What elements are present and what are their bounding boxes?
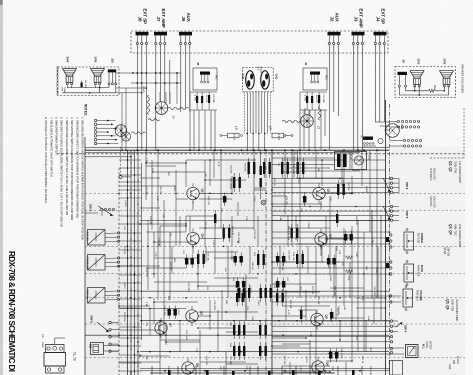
R cluster left mid xyxy=(223,228,225,238)
wire net 2nd stage left xyxy=(185,216,187,232)
potentiometer RV8 volume xyxy=(403,289,413,307)
jack J7 pin stubs xyxy=(155,35,157,42)
dashed rail y193 xyxy=(85,192,465,194)
jack J7 body xyxy=(154,32,167,36)
res stack center pair y288 xyxy=(238,288,240,298)
right dashed box edge xyxy=(463,108,465,158)
dashed rail y246 xyxy=(85,245,465,247)
left enclosure wiring bus xyxy=(66,86,68,88)
microphone input block J1 xyxy=(303,68,327,90)
ecap pair right of center xyxy=(276,256,279,263)
chassis dashed line y153.5 xyxy=(57,153,465,155)
ecap stack left of divider xyxy=(236,281,239,288)
driver components right xyxy=(300,310,302,319)
jack J4 pin stubs xyxy=(374,35,376,42)
head selector contact strip xyxy=(94,119,97,122)
main horizontal bus y150 xyxy=(85,149,389,151)
solid rail y291 xyxy=(140,290,389,292)
speaker enclosure (right) dashed box xyxy=(395,67,456,98)
wire net upper right ch xyxy=(282,159,344,161)
jack J4 body xyxy=(374,32,387,36)
shielded oscillator box T3 xyxy=(335,152,367,170)
mechanism switch PRESS SW xyxy=(88,255,106,271)
transistor Q7 xyxy=(155,322,167,334)
miscellaneous interconnect wires xyxy=(145,150,147,200)
R cluster right ch 2nd stage xyxy=(296,254,298,264)
bottom edge component stubs xyxy=(151,366,153,375)
record-playback head CH1 xyxy=(261,71,270,89)
verticals from J10 bus down to board xyxy=(121,93,123,150)
center solid rail x272 xyxy=(271,150,273,375)
scan corner mark xyxy=(0,0,3,5)
R cluster right mid xyxy=(291,228,293,238)
transformer T1 T2 xyxy=(44,353,66,367)
jack J2 body xyxy=(328,32,341,36)
capacitor B2 in enclosure xyxy=(81,83,83,88)
speaker SP1 xyxy=(410,71,424,79)
switch SW4 contacts xyxy=(390,320,392,322)
transistor Q8 driver xyxy=(311,313,323,325)
wire net 2nd stage right xyxy=(325,238,344,240)
solid rail y368 xyxy=(140,368,389,370)
cap cluster left ch xyxy=(223,196,226,203)
transistor Q3 xyxy=(315,233,327,245)
mechanism switch FWD SAL xyxy=(88,288,106,304)
speaker SP4 xyxy=(63,69,77,77)
capacitor 0.015 (R) xyxy=(272,133,284,138)
switch SW5 (right) contacts xyxy=(390,205,392,207)
ecap stack right of divider xyxy=(276,281,279,288)
erase head coil (right) xyxy=(386,124,400,138)
output connector bottom right xyxy=(390,361,403,375)
scan tone over dense board xyxy=(85,146,465,375)
jack J2 pin stubs xyxy=(328,35,330,42)
top components over T3 xyxy=(363,137,373,140)
jack J8 pin stubs xyxy=(136,35,138,42)
mechanism dashed vertical x119 xyxy=(118,168,120,375)
switch SW6 (left) contacts xyxy=(109,321,111,323)
potentiometer RV7A treble xyxy=(404,232,414,250)
speaker enclosure (left) dashed box xyxy=(58,67,120,96)
wire bus x127-140 xyxy=(127,150,129,375)
dashed rail y274 xyxy=(85,273,465,275)
transistor Q6 xyxy=(182,362,194,374)
mic J5 component cluster xyxy=(196,96,198,103)
tape head dashed enclosure xyxy=(243,68,274,92)
wire net upper left ch xyxy=(186,159,256,161)
res stack bottom left-center B xyxy=(233,346,235,356)
res stack left-center y255 xyxy=(257,254,259,265)
right enclosure wiring xyxy=(398,87,400,95)
additional interconnect wires pass 2 xyxy=(189,216,191,232)
solid rail y320 xyxy=(140,320,389,322)
center hanging parts xyxy=(260,166,262,175)
left board edge xyxy=(84,137,86,375)
R cluster left ch 2nd stage xyxy=(197,254,199,264)
ecap pair left of center xyxy=(234,256,237,263)
mechanism dashed link x120.5 xyxy=(120,147,122,177)
bus companion lines xyxy=(85,147,389,149)
solid rail y220 xyxy=(140,220,389,222)
speaker SP3 xyxy=(91,69,105,77)
jack J4 terminals xyxy=(374,42,376,44)
wires to right controls xyxy=(272,231,389,233)
capacitor 0.015 (L) xyxy=(228,133,240,138)
head rotary Z4 (left) xyxy=(155,102,168,115)
head wiring bundle xyxy=(246,92,248,134)
cap cluster right ch xyxy=(303,196,306,203)
ecap pair near Q5 xyxy=(168,309,171,316)
level meter M1 xyxy=(406,345,419,358)
transistor Q6 xyxy=(312,361,324,373)
transistor Q2 xyxy=(187,187,199,199)
dashed rail y210 xyxy=(85,209,465,211)
jack J3 pin stubs xyxy=(352,35,354,42)
jack J8 terminals xyxy=(136,42,138,44)
wires from right jacks descending to board xyxy=(328,45,330,150)
transistor Q4 xyxy=(187,232,199,244)
rotary head selector SO2 xyxy=(115,125,127,137)
scan tone center column xyxy=(225,150,287,375)
motor M2 xyxy=(91,343,104,355)
jack J7 terminals xyxy=(155,42,157,44)
record-playback head CH2 xyxy=(246,71,255,89)
wires from left jacks descending to board xyxy=(136,45,138,150)
microphone input block J5 xyxy=(193,68,217,90)
jack J3 terminals xyxy=(352,42,354,44)
jack J6 pin stubs xyxy=(180,35,182,42)
notes heading and list xyxy=(44,104,87,240)
dashed rail y358 xyxy=(85,357,465,359)
additional junction dots xyxy=(130,156,132,158)
right dash-dot divider x389.5 xyxy=(389,104,391,375)
solid rail y351 xyxy=(140,351,389,353)
jack J6 body xyxy=(179,32,192,36)
dashed rail y324 xyxy=(85,323,465,325)
head rotary Z3 (right) xyxy=(301,115,314,128)
mechanism switch REC SAL xyxy=(88,230,106,246)
transistor Q5 xyxy=(186,310,198,322)
jack J2 terminals xyxy=(328,42,330,44)
junction dots on rails xyxy=(136,149,138,151)
potentiometer RV6A bass xyxy=(404,264,414,282)
center dash-dot divider xyxy=(265,150,267,375)
transistor Q1 xyxy=(313,187,325,199)
connector P9 contact rows xyxy=(397,120,399,122)
ecap pair near Q6 right xyxy=(329,352,332,359)
R/C cluster near center (upper left ch) xyxy=(248,162,250,174)
mechanism linkage stubs left bus xyxy=(119,159,142,161)
pot terminal circles right edge xyxy=(390,234,392,236)
res stack bottom center-left C xyxy=(259,325,261,335)
bottom wires left xyxy=(119,308,186,310)
switch SW6 (right) contacts xyxy=(390,177,392,179)
bottom wires right xyxy=(326,360,352,362)
wires feeding SW6/SW5 right xyxy=(272,178,390,180)
connector J9 pins xyxy=(398,85,400,87)
jack J8 body xyxy=(136,32,149,36)
bottom edge heavy line xyxy=(150,372,335,374)
connector J10 pins xyxy=(108,83,110,85)
connector J10 body xyxy=(108,69,116,72)
resistor 8ohm zigzag xyxy=(429,89,436,92)
switch SW5 contacts (left) xyxy=(100,208,102,210)
R/C cluster near center (upper right ch) xyxy=(281,162,283,174)
mic J1 component cluster xyxy=(306,96,308,103)
right board edge x385.5 xyxy=(385,100,387,375)
wires from J10 to board xyxy=(116,72,181,74)
connector J9 body xyxy=(398,72,408,75)
dashed rail y298 xyxy=(85,297,465,299)
scan edge shadow xyxy=(0,0,3,375)
jack J6 terminals xyxy=(180,42,182,44)
solid rail y335 xyxy=(85,334,389,336)
speaker SP2 xyxy=(440,71,454,79)
res stack bottom left-center A xyxy=(233,325,235,335)
jack J3 body xyxy=(352,32,365,36)
rear panel dashed boundary xyxy=(131,31,388,53)
SW4 meter feed contacts xyxy=(390,347,392,349)
scan tone left mech column xyxy=(85,200,141,375)
